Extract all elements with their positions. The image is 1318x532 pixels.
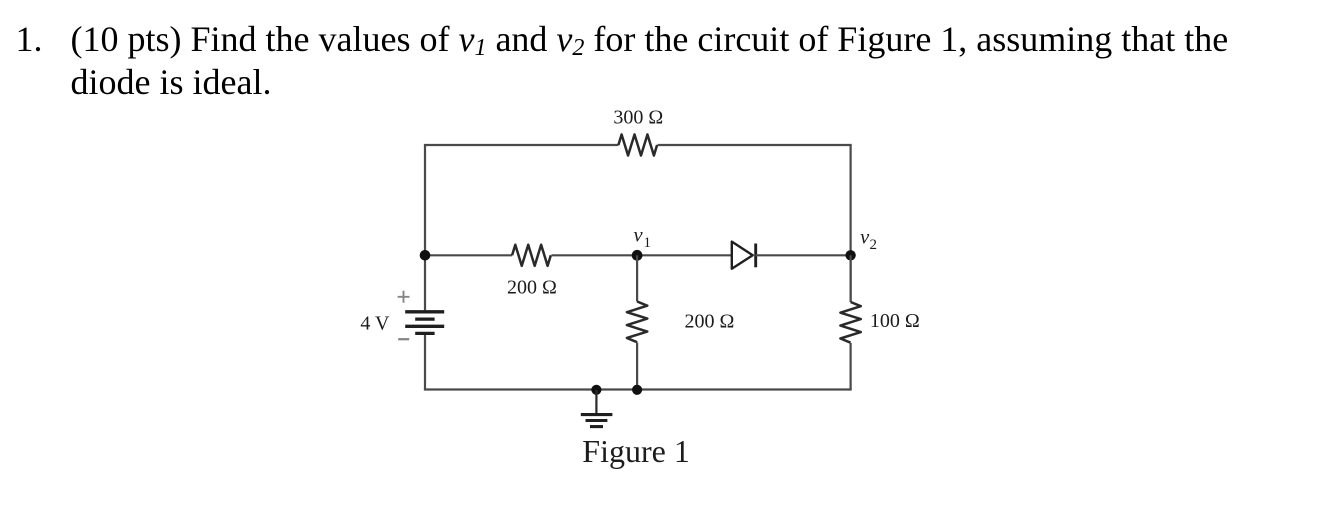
wire: top rail left segment [424, 144, 619, 146]
wire: middle rail from left node to 200ohm [425, 254, 512, 256]
resistor R 100ohm lower wire (zigzag to bottom rail) [849, 343, 851, 390]
node v1 dot [632, 250, 643, 261]
svg-text:1: 1 [644, 235, 652, 251]
battery B1 plate short upper [415, 317, 434, 320]
wire: top rail right segment [658, 144, 852, 146]
diode D1 cathode bar [754, 244, 757, 268]
resistor R 200ohm horizontal zigzag [512, 245, 551, 266]
resistor R 100ohm upper wire (v2 to zigzag) [849, 255, 851, 302]
resistor R 300ohm zigzag [618, 134, 657, 155]
svg-text:100 Ω: 100 Ω [870, 310, 920, 332]
svg-text:2: 2 [870, 237, 878, 253]
svg-text:200 Ω: 200 Ω [507, 276, 557, 298]
battery minus sign [398, 338, 409, 340]
node v2 dot [845, 250, 855, 260]
svg-text:Figure 1: Figure 1 [582, 433, 690, 469]
vertical resistor branch wire upper (v1 to zigzag) [636, 255, 638, 301]
wire: middle rail from 200ohm to diode [551, 254, 731, 256]
wire: middle rail from diode to v2 node [756, 254, 851, 256]
problem statement text [16, 20, 43, 58]
node dot ground tee [591, 385, 601, 395]
wire: bottom rail [424, 388, 852, 390]
svg-text:v: v [634, 224, 644, 246]
ground bar 2 [586, 419, 608, 422]
wire: left rail lower (battery bottom to bottom-left corner) [424, 335, 426, 390]
resistor R 100ohm vertical zigzag [840, 302, 860, 343]
diode D1 triangle [732, 242, 753, 269]
vertical resistor branch wire lower (zigzag to bottom rail) [636, 343, 638, 390]
wire: right rail [849, 145, 851, 302]
node dot bottom of 200ohm branch [632, 385, 642, 395]
resistor R 200ohm vertical zigzag [627, 302, 647, 343]
svg-text:200 Ω: 200 Ω [685, 311, 735, 333]
battery plus sign [398, 291, 410, 303]
svg-text:300 Ω: 300 Ω [613, 107, 663, 129]
battery B1 plate long top [405, 310, 444, 313]
wire: top-left vertical (left rail upper, corner to battery tee) [424, 145, 426, 310]
battery B1 plate long lower [405, 325, 444, 328]
ground stem [595, 390, 597, 415]
ground bar 1 [581, 413, 613, 416]
svg-text:4 V: 4 V [360, 312, 390, 334]
node dot left rail tee [420, 250, 431, 261]
ground bar 3 [590, 425, 603, 428]
battery B1 plate short bottom [415, 332, 434, 335]
